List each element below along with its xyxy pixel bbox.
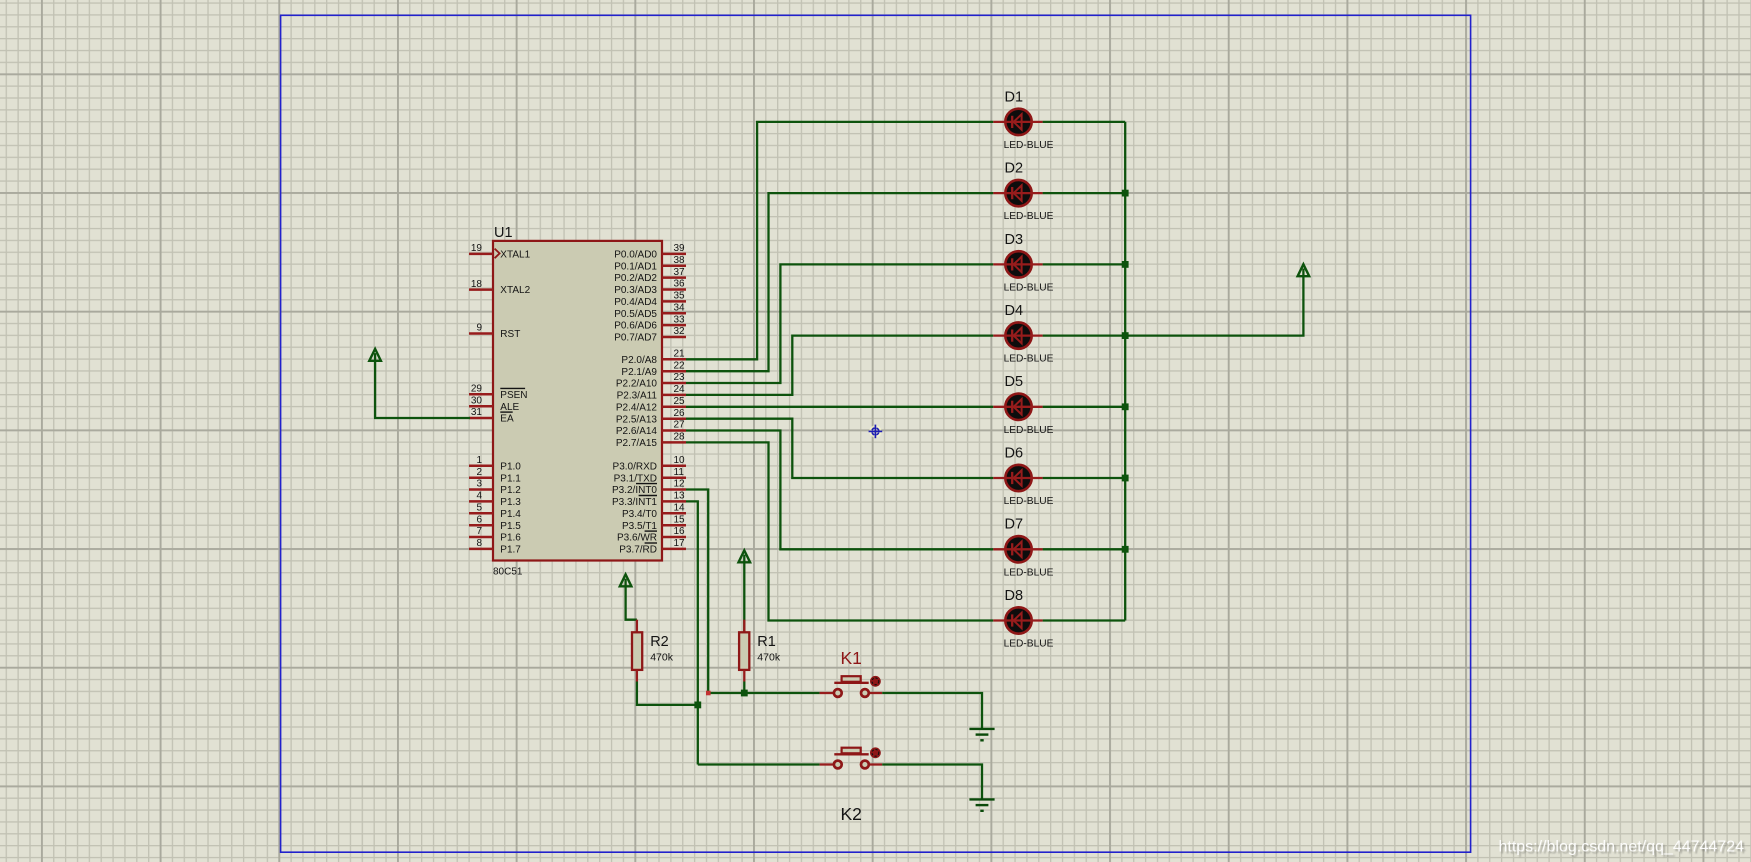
ground (K1): [969, 728, 994, 730]
pin 28 P2.7/A15: [616, 432, 686, 449]
junction: [1122, 332, 1129, 339]
svg-text:2: 2: [476, 467, 482, 478]
pin 15 P3.5/T1: [622, 514, 686, 531]
svg-text:P1.2: P1.2: [500, 485, 521, 496]
svg-text:32: 32: [674, 326, 686, 337]
power arrow EA: [369, 349, 381, 361]
svg-text:470k: 470k: [650, 651, 674, 663]
svg-text:16: 16: [674, 526, 686, 537]
svg-text:LED-BLUE: LED-BLUE: [1004, 354, 1054, 365]
pushbutton K2: [820, 747, 883, 768]
wire K1 row horizontal: [708, 692, 819, 694]
pin 6 P1.5: [469, 514, 521, 531]
wire R2 bottom to K2 net: [637, 682, 698, 705]
svg-text:P2.6/A14: P2.6/A14: [616, 426, 658, 437]
wire K1 to ground: [882, 693, 982, 729]
pin 30 ALE: [469, 395, 520, 412]
pin 27 P2.6/A14: [616, 420, 686, 437]
wire bus to VCC arrow: [1125, 269, 1303, 336]
svg-text:34: 34: [674, 303, 686, 314]
IC U1 80C51: [493, 241, 662, 561]
wire P2.3 to D4: [686, 336, 993, 395]
pin 7 P1.6: [469, 526, 521, 543]
svg-text:23: 23: [674, 372, 686, 383]
pin 8 P1.7: [469, 538, 521, 555]
pin 37 P0.2/AD2: [614, 267, 686, 284]
svg-text:P3.6/WR: P3.6/WR: [617, 533, 657, 544]
junction R2/K2 net: [694, 702, 701, 709]
svg-text:LED-BLUE: LED-BLUE: [1004, 496, 1054, 507]
wire arrow to R2 top: [626, 579, 637, 620]
junction: [1122, 190, 1129, 197]
svg-text:RST: RST: [500, 329, 520, 340]
LED D2 (LED-BLUE): [993, 180, 1042, 206]
svg-text:D6: D6: [1005, 445, 1024, 461]
pin 21 P2.0/A8: [621, 349, 686, 366]
svg-text:24: 24: [674, 384, 686, 395]
svg-text:19: 19: [471, 243, 483, 254]
pin 25 P2.4/A12: [616, 396, 686, 413]
wire D2 to bus: [1043, 192, 1126, 194]
wire D7 to bus: [1043, 548, 1126, 550]
svg-text:PSEN: PSEN: [500, 390, 527, 401]
svg-text:P3.2/INT0: P3.2/INT0: [612, 485, 657, 496]
wire-end marker: [706, 691, 711, 696]
svg-text:17: 17: [674, 538, 686, 549]
wire EA to power arrow: [375, 353, 470, 418]
pin 11 P3.1/TXD: [614, 467, 686, 484]
wire right vertical bus: [1124, 122, 1126, 621]
svg-text:P0.6/AD6: P0.6/AD6: [614, 321, 657, 332]
svg-text:31: 31: [471, 407, 483, 418]
svg-text:https://blog.csdn.net/qq_44744: https://blog.csdn.net/qq_44744724: [1498, 838, 1744, 855]
wire P3.2/INT0 to K1 net: [686, 490, 708, 694]
svg-text:12: 12: [674, 479, 686, 490]
svg-text:P2.2/A10: P2.2/A10: [616, 379, 658, 390]
power arrow above R1: [739, 550, 751, 562]
pin 14 P3.4/T0: [622, 503, 686, 520]
pin 23 P2.2/A10: [616, 372, 686, 389]
svg-text:XTAL1: XTAL1: [500, 250, 530, 261]
pin 39 P0.0/AD0: [614, 243, 686, 260]
pin 32 P0.7/AD7: [614, 326, 686, 343]
svg-text:P1.4: P1.4: [500, 509, 521, 520]
wire K2 row horizontal: [698, 763, 820, 765]
junction: [1122, 546, 1129, 553]
pin 9 RST: [469, 323, 520, 340]
junction R1/K1 net: [741, 690, 748, 697]
svg-text:P3.5/T1: P3.5/T1: [622, 521, 657, 532]
LED D5 (LED-BLUE): [993, 394, 1042, 420]
svg-text:EA: EA: [500, 414, 514, 425]
origin marker: [869, 425, 883, 439]
junction: [1122, 403, 1129, 410]
LED D7 (LED-BLUE): [993, 536, 1042, 562]
svg-text:25: 25: [674, 396, 686, 407]
svg-text:4: 4: [476, 491, 482, 502]
svg-text:11: 11: [674, 467, 685, 478]
LED D1 (LED-BLUE): [993, 109, 1042, 135]
svg-text:9: 9: [476, 323, 482, 334]
pin 1 P1.0: [469, 455, 521, 472]
svg-text:R1: R1: [757, 634, 776, 650]
svg-text:P1.5: P1.5: [500, 521, 521, 532]
svg-text:D5: D5: [1005, 374, 1024, 390]
power arrow above R2: [620, 574, 632, 586]
svg-text:22: 22: [674, 360, 686, 371]
svg-text:P2.7/A15: P2.7/A15: [616, 438, 658, 449]
svg-text:21: 21: [674, 349, 686, 360]
svg-text:LED-BLUE: LED-BLUE: [1004, 140, 1054, 151]
LED D6 (LED-BLUE): [993, 465, 1042, 491]
wire D6 to bus: [1043, 477, 1126, 479]
svg-text:P0.0/AD0: P0.0/AD0: [614, 250, 657, 261]
svg-text:P2.1/A9: P2.1/A9: [621, 367, 657, 378]
pin 17 P3.7/RD: [619, 538, 686, 555]
svg-text:8: 8: [476, 538, 482, 549]
pin 31 EA: [469, 407, 514, 424]
svg-text:P1.1: P1.1: [500, 473, 521, 484]
svg-text:LED-BLUE: LED-BLUE: [1004, 282, 1054, 293]
svg-text:P3.1/TXD: P3.1/TXD: [614, 473, 657, 484]
svg-text:D4: D4: [1005, 303, 1024, 319]
pin 33 P0.6/AD6: [614, 314, 686, 331]
svg-text:P1.3: P1.3: [500, 497, 521, 508]
svg-text:D1: D1: [1005, 89, 1024, 105]
svg-text:470k: 470k: [757, 651, 781, 663]
svg-text:D7: D7: [1005, 517, 1024, 533]
LED D4 (LED-BLUE): [993, 322, 1042, 348]
svg-text:27: 27: [674, 420, 686, 431]
svg-text:38: 38: [674, 255, 686, 266]
wire D8 to bus: [1043, 619, 1126, 621]
svg-text:37: 37: [674, 267, 686, 278]
pushbutton K1: [820, 676, 883, 697]
pin 18 XTAL2: [469, 279, 531, 296]
svg-text:D2: D2: [1005, 161, 1024, 177]
svg-text:P2.3/A11: P2.3/A11: [617, 391, 658, 402]
svg-text:D8: D8: [1005, 588, 1024, 604]
pin 2 P1.1: [469, 467, 521, 484]
resistor R2: [632, 620, 642, 682]
ground (K2): [969, 798, 994, 800]
pin 22 P2.1/A9: [621, 360, 686, 377]
svg-text:13: 13: [674, 491, 686, 502]
LED D3 (LED-BLUE): [993, 251, 1042, 277]
svg-text:6: 6: [476, 514, 482, 525]
wire P2.5 to D6: [686, 419, 993, 478]
svg-text:39: 39: [674, 243, 686, 254]
wire P2.1 to D2: [686, 193, 993, 371]
pin 24 P2.3/A11: [617, 384, 686, 401]
pin 4 P1.3: [469, 491, 521, 508]
pin 29 PSEN: [469, 384, 528, 401]
pin 19 XTAL1 clock chevron: [495, 249, 500, 259]
svg-text:LED-BLUE: LED-BLUE: [1004, 425, 1054, 436]
svg-text:5: 5: [476, 503, 482, 514]
pin 19 XTAL1: [469, 243, 531, 260]
wire P2.6 to D7: [686, 431, 993, 550]
svg-text:7: 7: [476, 526, 482, 537]
pin 36 P0.3/AD3: [614, 279, 686, 296]
pin 34 P0.5/AD5: [614, 303, 686, 320]
sheet border: [281, 15, 1471, 852]
svg-text:P0.3/AD3: P0.3/AD3: [614, 285, 657, 296]
svg-text:P1.6: P1.6: [500, 533, 521, 544]
svg-text:P3.4/T0: P3.4/T0: [622, 509, 657, 520]
wire D4 to bus: [1043, 334, 1126, 336]
svg-text:R2: R2: [650, 634, 669, 650]
pin 13 P3.3/INT1: [612, 491, 686, 508]
pin 26 P2.5/A13: [616, 408, 686, 425]
svg-text:K2: K2: [841, 804, 862, 824]
LED D8 (LED-BLUE): [993, 607, 1042, 633]
wire P2.2 to D3: [686, 264, 993, 383]
wire D5 to bus: [1043, 406, 1126, 408]
wire K2 to ground: [882, 765, 982, 800]
power arrow VCC right: [1298, 264, 1310, 276]
pin 35 P0.4/AD4: [614, 291, 686, 308]
wire P2.7 to D8: [686, 442, 993, 620]
resistor R1: [739, 620, 749, 682]
svg-text:LED-BLUE: LED-BLUE: [1004, 211, 1054, 222]
svg-text:P3.3/INT1: P3.3/INT1: [612, 497, 657, 508]
svg-text:ALE: ALE: [500, 402, 519, 413]
junction: [1122, 261, 1129, 268]
pin 38 P0.1/AD1: [614, 255, 686, 272]
svg-text:10: 10: [674, 455, 686, 466]
svg-text:15: 15: [674, 514, 686, 525]
pin 12 P3.2/INT0: [612, 479, 686, 496]
wire P2.0 to D1: [686, 122, 993, 359]
wire R1 bottom to K1 net: [743, 682, 745, 694]
svg-text:29: 29: [471, 384, 483, 395]
svg-text:30: 30: [471, 395, 483, 406]
svg-text:K1: K1: [841, 648, 862, 668]
svg-text:3: 3: [476, 479, 482, 490]
svg-text:80C51: 80C51: [493, 567, 523, 578]
svg-text:U1: U1: [494, 225, 513, 241]
svg-text:P3.0/RXD: P3.0/RXD: [613, 461, 657, 472]
pin 10 P3.0/RXD: [613, 455, 686, 472]
pin 16 P3.6/WR: [617, 526, 686, 543]
svg-text:LED-BLUE: LED-BLUE: [1004, 567, 1054, 578]
svg-text:LED-BLUE: LED-BLUE: [1004, 639, 1054, 650]
wire D3 to bus: [1043, 263, 1126, 265]
wire arrow to R1 top: [743, 555, 745, 633]
svg-text:P0.2/AD2: P0.2/AD2: [614, 273, 657, 284]
svg-text:1: 1: [476, 455, 482, 466]
pin 5 P1.4: [469, 503, 521, 520]
junction: [1122, 475, 1129, 482]
svg-text:XTAL2: XTAL2: [500, 285, 530, 296]
svg-text:P3.7/RD: P3.7/RD: [619, 545, 657, 556]
svg-text:14: 14: [674, 503, 686, 514]
svg-text:33: 33: [674, 314, 686, 325]
svg-text:P0.5/AD5: P0.5/AD5: [614, 309, 657, 320]
svg-text:P2.5/A13: P2.5/A13: [616, 414, 658, 425]
wire P2.4 to D5: [686, 406, 993, 408]
wire P3.3/INT1 to K2 net: [686, 501, 698, 764]
svg-text:P2.0/A8: P2.0/A8: [621, 355, 657, 366]
svg-text:P0.7/AD7: P0.7/AD7: [614, 333, 657, 344]
wire D1 to bus: [1043, 121, 1126, 123]
svg-text:P1.0: P1.0: [500, 461, 521, 472]
svg-text:35: 35: [674, 291, 686, 302]
svg-text:P1.7: P1.7: [500, 545, 521, 556]
svg-text:P0.1/AD1: P0.1/AD1: [614, 261, 657, 272]
svg-text:36: 36: [674, 279, 686, 290]
svg-text:28: 28: [674, 432, 686, 443]
svg-text:D3: D3: [1005, 232, 1024, 248]
pin 3 P1.2: [469, 479, 521, 496]
svg-text:26: 26: [674, 408, 686, 419]
svg-text:P0.4/AD4: P0.4/AD4: [614, 297, 657, 308]
svg-text:18: 18: [471, 279, 483, 290]
svg-text:P2.4/A12: P2.4/A12: [616, 402, 658, 413]
